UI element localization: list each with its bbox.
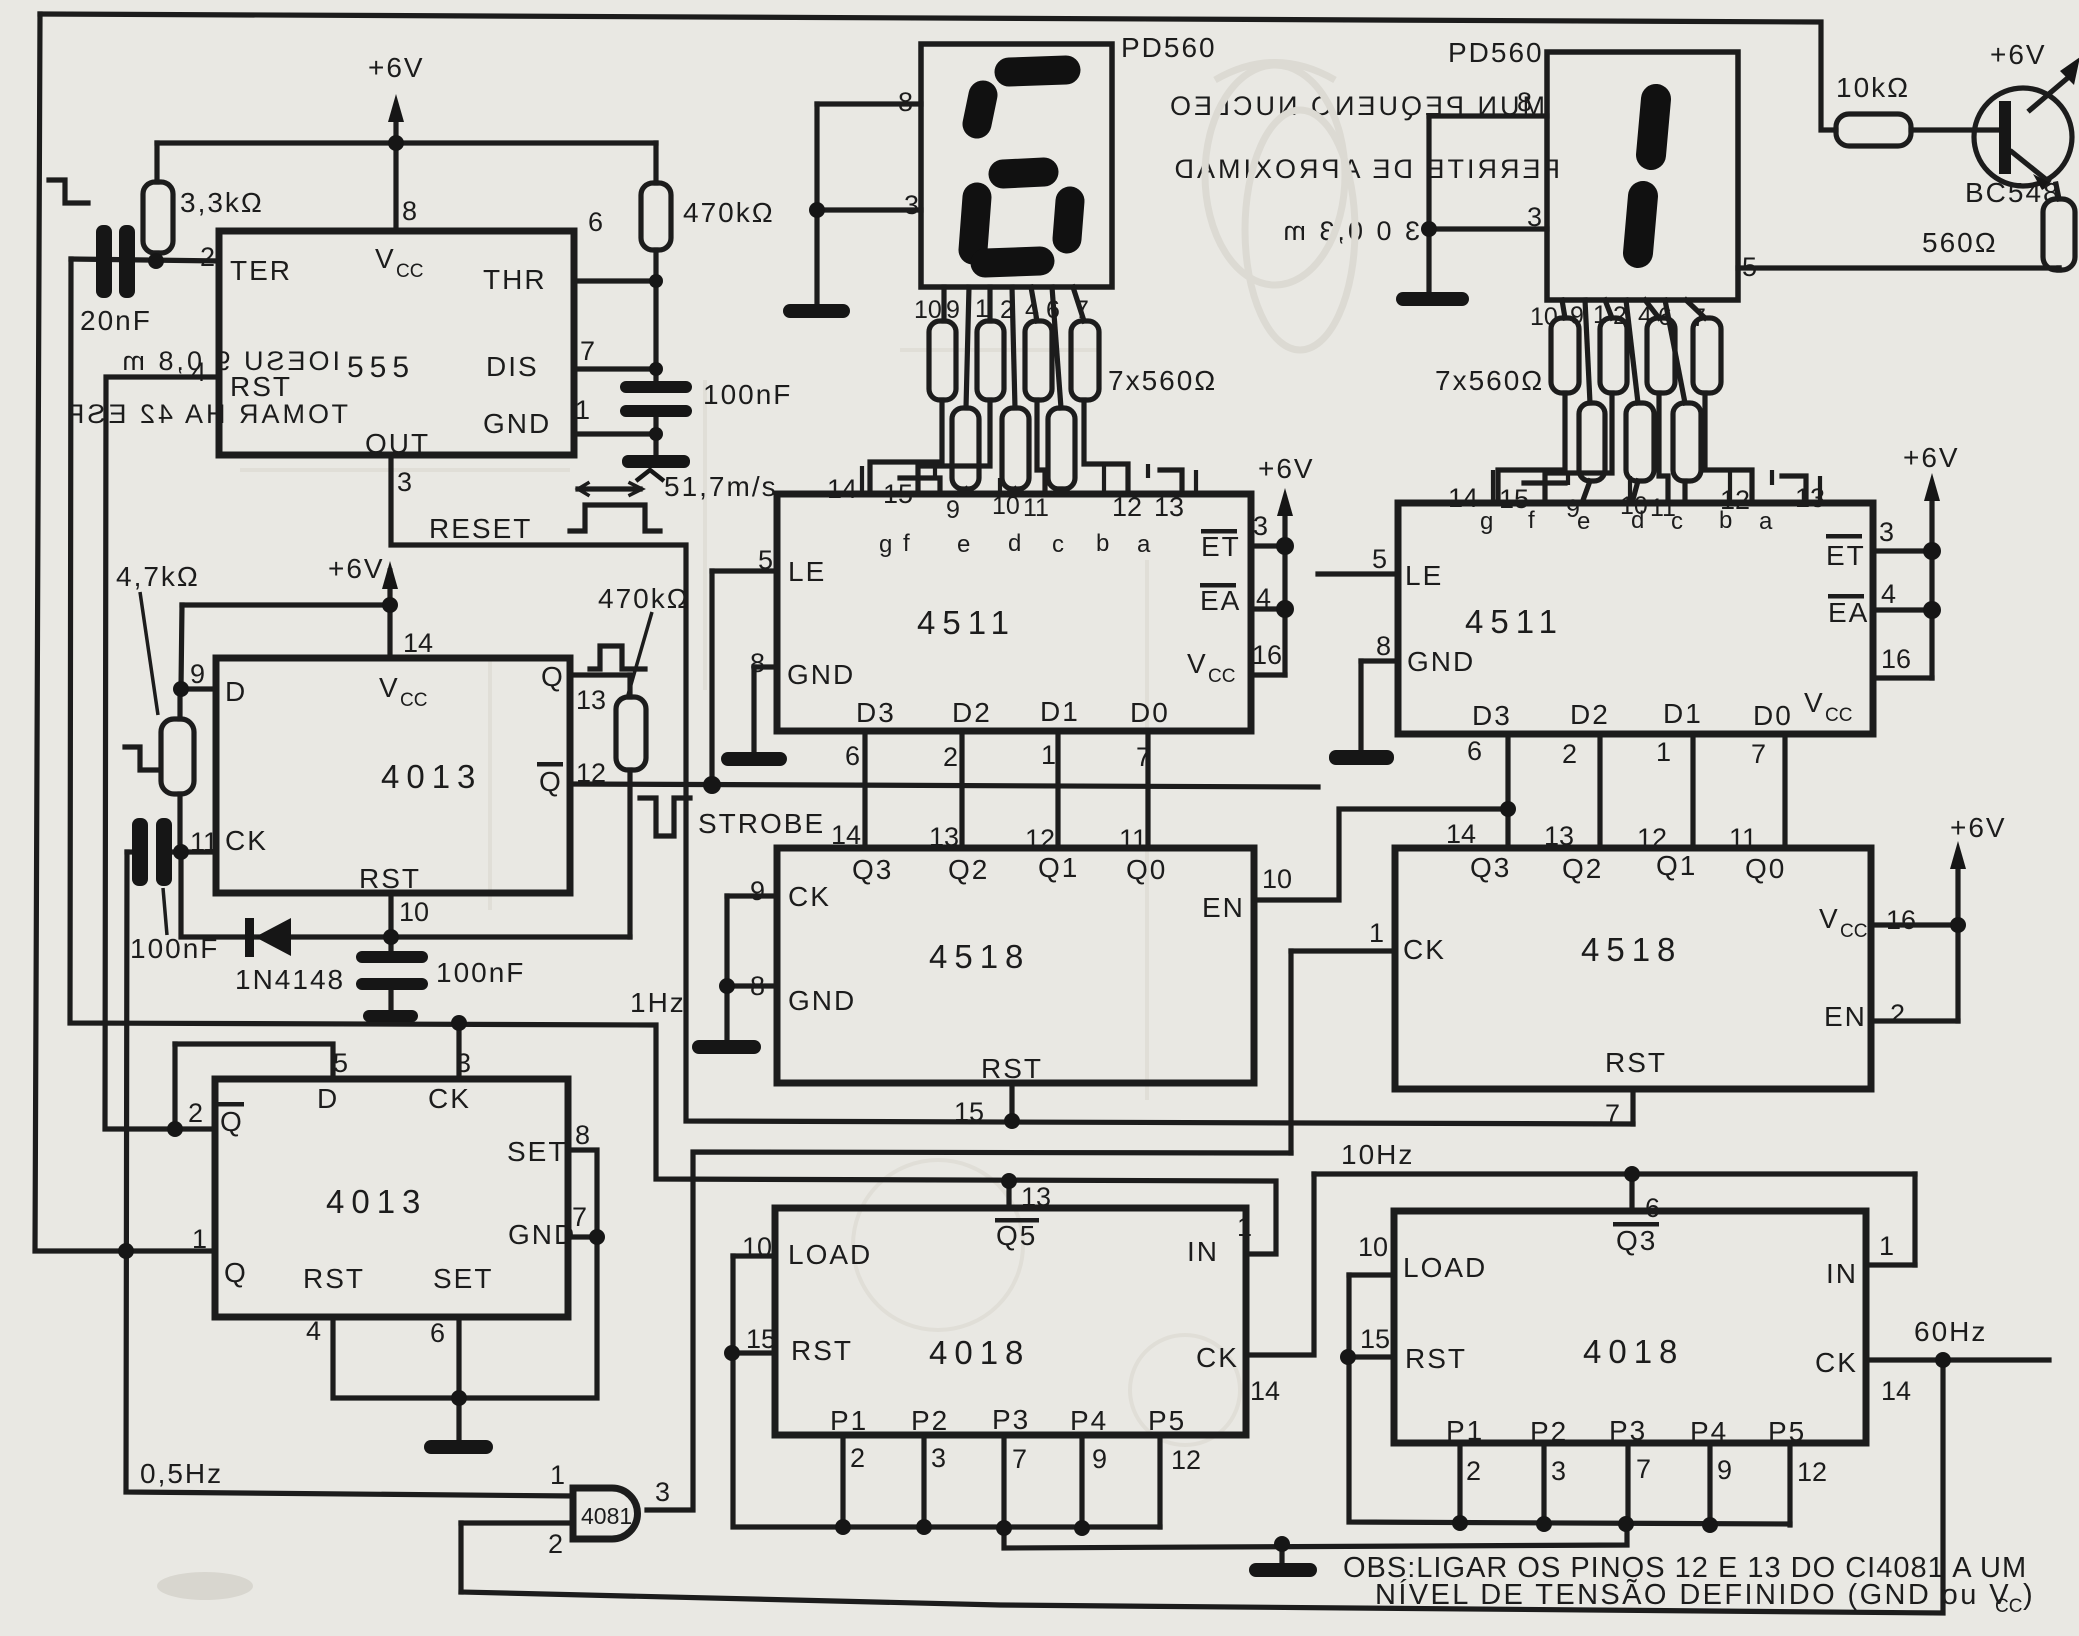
svg-text:8: 8 xyxy=(402,196,417,226)
svg-text:7: 7 xyxy=(1692,304,1706,332)
svg-text:6: 6 xyxy=(1658,303,1672,331)
svg-text:6: 6 xyxy=(1046,296,1060,324)
svg-text:7: 7 xyxy=(1636,1454,1651,1484)
svg-text:4081: 4081 xyxy=(581,1503,632,1529)
svg-text:560Ω: 560Ω xyxy=(1922,227,1998,258)
svg-text:TER: TER xyxy=(230,255,292,286)
svg-text:4: 4 xyxy=(1256,583,1271,613)
svg-text:OUT: OUT xyxy=(365,428,430,459)
svg-text:SET: SET xyxy=(507,1136,567,1167)
svg-text:V: V xyxy=(1819,903,1840,934)
svg-text:15: 15 xyxy=(1499,484,1529,514)
svg-text:13: 13 xyxy=(1154,492,1184,522)
svg-text:1N4148: 1N4148 xyxy=(235,964,345,995)
svg-text:1: 1 xyxy=(975,295,989,323)
svg-text:V: V xyxy=(379,672,400,703)
svg-text:+6V: +6V xyxy=(1990,39,2047,70)
svg-text:15: 15 xyxy=(883,479,913,509)
svg-text:d: d xyxy=(1631,507,1644,534)
svg-text:RST: RST xyxy=(1605,1047,1667,1078)
svg-text:0,5Hz: 0,5Hz xyxy=(140,1458,223,1489)
svg-text:D0: D0 xyxy=(1753,700,1793,731)
svg-text:Q: Q xyxy=(541,661,565,692)
svg-text:3: 3 xyxy=(655,1477,670,1507)
svg-text:10: 10 xyxy=(742,1232,772,1262)
svg-text:CK: CK xyxy=(788,881,831,912)
svg-text:14: 14 xyxy=(1448,483,1478,513)
svg-text:7: 7 xyxy=(1136,742,1151,772)
svg-text:11: 11 xyxy=(1023,494,1049,522)
svg-text:3: 3 xyxy=(931,1443,946,1473)
svg-text:Q0: Q0 xyxy=(1745,853,1786,884)
svg-text:RST: RST xyxy=(230,371,292,402)
svg-text:a: a xyxy=(1759,508,1773,535)
svg-text:100nF: 100nF xyxy=(703,379,792,410)
svg-text:14: 14 xyxy=(403,628,433,658)
svg-text:e: e xyxy=(1577,508,1590,535)
svg-text:13: 13 xyxy=(576,685,606,715)
svg-text:g: g xyxy=(879,531,892,558)
svg-text:3,3kΩ: 3,3kΩ xyxy=(180,187,264,218)
svg-text:1: 1 xyxy=(1656,737,1671,767)
svg-text:BC548: BC548 xyxy=(1965,177,2061,208)
svg-text:2: 2 xyxy=(850,1443,865,1473)
svg-text:2: 2 xyxy=(1466,1456,1481,1486)
svg-text:6: 6 xyxy=(1467,736,1482,766)
svg-text:3: 3 xyxy=(1527,202,1542,232)
svg-text:16: 16 xyxy=(1881,644,1911,674)
svg-text:555: 555 xyxy=(347,351,415,384)
svg-text:9: 9 xyxy=(750,876,765,906)
svg-text:D0: D0 xyxy=(1130,697,1170,728)
svg-text:SET: SET xyxy=(433,1263,493,1294)
svg-text:12: 12 xyxy=(1637,823,1667,853)
svg-text:10: 10 xyxy=(1530,303,1558,331)
svg-text:LOAD: LOAD xyxy=(788,1239,872,1270)
svg-text:9: 9 xyxy=(1717,1455,1732,1485)
svg-text:10: 10 xyxy=(1262,864,1292,894)
svg-text:CK: CK xyxy=(428,1083,471,1114)
svg-text:b: b xyxy=(1096,530,1109,557)
svg-text:2: 2 xyxy=(943,742,958,772)
svg-text:1: 1 xyxy=(1237,1212,1252,1242)
svg-text:16: 16 xyxy=(1252,640,1282,670)
svg-text:7x560Ω: 7x560Ω xyxy=(1435,365,1544,396)
svg-text:7: 7 xyxy=(1751,739,1766,769)
svg-text:d: d xyxy=(1008,530,1021,557)
svg-text:4,7kΩ: 4,7kΩ xyxy=(116,561,200,592)
svg-text:P5: P5 xyxy=(1768,1416,1806,1447)
svg-text:GND: GND xyxy=(788,985,856,1016)
svg-text:7: 7 xyxy=(580,336,595,366)
svg-text:9: 9 xyxy=(1092,1444,1107,1474)
svg-text:12: 12 xyxy=(576,758,606,788)
svg-text:CC: CC xyxy=(1840,921,1867,942)
svg-text:3: 3 xyxy=(904,190,919,220)
svg-text:4: 4 xyxy=(306,1316,321,1346)
svg-text:RST: RST xyxy=(303,1263,365,1294)
svg-text:RST: RST xyxy=(359,863,421,894)
svg-text:8: 8 xyxy=(1376,631,1391,661)
svg-text:CC: CC xyxy=(400,690,427,711)
svg-text:3: 3 xyxy=(1879,517,1894,547)
svg-text:15: 15 xyxy=(746,1324,776,1354)
svg-text:D3: D3 xyxy=(1472,700,1512,731)
svg-text:e: e xyxy=(957,531,970,558)
svg-text:14: 14 xyxy=(1250,1376,1280,1406)
svg-text:+6V: +6V xyxy=(1258,453,1315,484)
svg-text:11: 11 xyxy=(190,827,218,857)
svg-text:Q: Q xyxy=(539,766,563,797)
svg-text:10: 10 xyxy=(1358,1232,1388,1262)
svg-text:12: 12 xyxy=(1112,492,1142,522)
svg-text:f: f xyxy=(1528,507,1535,534)
svg-text:CK: CK xyxy=(1815,1347,1858,1378)
svg-text:13: 13 xyxy=(1021,1182,1051,1212)
svg-text:8: 8 xyxy=(1517,87,1532,117)
svg-text:D: D xyxy=(317,1083,339,1114)
svg-text:5: 5 xyxy=(1742,252,1757,282)
svg-text:1: 1 xyxy=(1041,740,1056,770)
svg-text:7x560Ω: 7x560Ω xyxy=(1108,365,1217,396)
svg-text:5: 5 xyxy=(1372,544,1387,574)
svg-text:D3: D3 xyxy=(856,697,896,728)
svg-text:14: 14 xyxy=(1446,819,1476,849)
svg-text:5: 5 xyxy=(333,1048,348,1078)
svg-text:4: 4 xyxy=(1881,579,1896,609)
svg-text:D2: D2 xyxy=(1570,699,1610,730)
svg-text:f: f xyxy=(903,530,910,557)
svg-text:14: 14 xyxy=(831,820,861,850)
svg-text:THR: THR xyxy=(483,264,547,295)
svg-text:+6V: +6V xyxy=(1903,442,1960,473)
svg-text:9: 9 xyxy=(1570,302,1584,330)
svg-text:4013: 4013 xyxy=(381,758,482,795)
svg-text:V: V xyxy=(375,243,396,274)
svg-text:RST: RST xyxy=(981,1053,1043,1084)
svg-text:P4: P4 xyxy=(1690,1416,1728,1447)
svg-text:1: 1 xyxy=(575,395,590,425)
svg-text:470kΩ: 470kΩ xyxy=(683,197,775,228)
svg-text:P4: P4 xyxy=(1070,1405,1108,1436)
svg-text:2: 2 xyxy=(200,242,215,272)
svg-text:1: 1 xyxy=(1593,301,1607,329)
svg-text:FERRITE DE APROXIMAD: FERRITE DE APROXIMAD xyxy=(1171,154,1560,184)
svg-text:+6V: +6V xyxy=(368,52,425,83)
svg-text:8: 8 xyxy=(750,648,765,678)
svg-text:1: 1 xyxy=(550,1460,565,1490)
svg-text:Q3: Q3 xyxy=(852,854,893,885)
svg-text:P1: P1 xyxy=(830,1405,868,1436)
svg-text:1: 1 xyxy=(192,1224,207,1254)
svg-text:LOAD: LOAD xyxy=(1403,1252,1487,1283)
svg-text:c: c xyxy=(1052,531,1064,558)
svg-text:10: 10 xyxy=(914,296,942,324)
svg-text:2: 2 xyxy=(548,1529,563,1559)
svg-text:2: 2 xyxy=(188,1098,203,1128)
svg-text:6: 6 xyxy=(430,1318,445,1348)
svg-text:4: 4 xyxy=(1025,296,1039,324)
svg-text:+6V: +6V xyxy=(1950,812,2007,843)
svg-text:NÍVEL DE TENSÃO DEFINIDO (GND: NÍVEL DE TENSÃO DEFINIDO (GND ou V xyxy=(1375,1577,2011,1611)
svg-text:LE: LE xyxy=(1405,560,1443,591)
svg-text:9: 9 xyxy=(190,659,205,689)
svg-text:D1: D1 xyxy=(1663,698,1703,729)
svg-text:14: 14 xyxy=(1881,1376,1911,1406)
svg-text:IN: IN xyxy=(1187,1236,1219,1267)
svg-text:GND: GND xyxy=(483,408,551,439)
svg-text:7: 7 xyxy=(1605,1099,1620,1129)
svg-text:8: 8 xyxy=(898,87,913,117)
svg-text:11: 11 xyxy=(1119,824,1147,854)
svg-text:a: a xyxy=(1137,531,1151,558)
svg-text:4518: 4518 xyxy=(1581,931,1682,968)
svg-text:3: 3 xyxy=(1253,511,1268,541)
svg-text:51,7m/s: 51,7m/s xyxy=(664,471,778,502)
svg-text:2: 2 xyxy=(1613,302,1627,330)
svg-text:IN: IN xyxy=(1826,1258,1858,1289)
svg-text:10Hz: 10Hz xyxy=(1341,1139,1414,1170)
svg-text:15: 15 xyxy=(954,1097,984,1127)
svg-text:6: 6 xyxy=(1645,1193,1660,1223)
svg-text:4518: 4518 xyxy=(929,938,1030,975)
svg-text:8: 8 xyxy=(750,971,765,1001)
svg-text:470kΩ: 470kΩ xyxy=(598,583,690,614)
svg-text:13: 13 xyxy=(929,822,959,852)
svg-text:STROBE: STROBE xyxy=(698,808,825,839)
svg-text:4: 4 xyxy=(1638,302,1652,330)
svg-text:3 0 0,3 m: 3 0 0,3 m xyxy=(1280,216,1420,246)
svg-text:P2: P2 xyxy=(1530,1416,1568,1447)
svg-text:+6V: +6V xyxy=(328,553,385,584)
svg-text:4013: 4013 xyxy=(326,1183,427,1220)
svg-text:60Hz: 60Hz xyxy=(1914,1316,1987,1347)
svg-text:3: 3 xyxy=(456,1048,471,1078)
svg-text:1: 1 xyxy=(1879,1231,1894,1261)
svg-text:Q1: Q1 xyxy=(1038,852,1079,883)
svg-text:P3: P3 xyxy=(1609,1415,1647,1446)
svg-text:16: 16 xyxy=(1886,905,1916,935)
svg-text:ET: ET xyxy=(1826,540,1866,571)
svg-text:P5: P5 xyxy=(1148,1405,1186,1436)
svg-text:3: 3 xyxy=(1551,1456,1566,1486)
svg-text:CC: CC xyxy=(396,261,423,282)
svg-text:Q: Q xyxy=(220,1106,244,1137)
svg-text:EN: EN xyxy=(1824,1001,1867,1032)
svg-text:Q1: Q1 xyxy=(1656,850,1697,881)
svg-text:PD560: PD560 xyxy=(1448,37,1544,68)
svg-text:GND: GND xyxy=(787,659,855,690)
svg-text:Q3: Q3 xyxy=(1470,852,1511,883)
svg-text:6: 6 xyxy=(845,741,860,771)
svg-text:10: 10 xyxy=(399,897,429,927)
svg-text:12: 12 xyxy=(1025,824,1055,854)
svg-text:13: 13 xyxy=(1544,821,1574,851)
svg-text:Q2: Q2 xyxy=(1562,853,1603,884)
svg-text:1: 1 xyxy=(1369,918,1384,948)
svg-text:Q2: Q2 xyxy=(948,854,989,885)
svg-text:P1: P1 xyxy=(1446,1415,1484,1446)
svg-text:11: 11 xyxy=(1729,823,1757,853)
svg-text:RST: RST xyxy=(791,1335,853,1366)
svg-text:Q3: Q3 xyxy=(1616,1225,1657,1256)
svg-text:c: c xyxy=(1671,508,1683,535)
svg-text:2: 2 xyxy=(1000,296,1014,324)
svg-text:CC: CC xyxy=(1825,705,1852,726)
svg-text:Q0: Q0 xyxy=(1126,854,1167,885)
svg-text:20nF: 20nF xyxy=(80,305,152,336)
svg-text:4: 4 xyxy=(191,357,206,387)
svg-text:ET: ET xyxy=(1201,531,1241,562)
svg-text:CK: CK xyxy=(1403,934,1446,965)
svg-text:4511: 4511 xyxy=(917,604,1016,641)
svg-text:100nF: 100nF xyxy=(436,957,525,988)
svg-text:12: 12 xyxy=(1171,1445,1201,1475)
svg-text:Q5: Q5 xyxy=(996,1220,1037,1251)
svg-text:D: D xyxy=(225,676,247,707)
svg-text:10kΩ: 10kΩ xyxy=(1836,72,1910,103)
svg-text:12: 12 xyxy=(1797,1457,1827,1487)
svg-text:5: 5 xyxy=(758,545,773,575)
svg-text:7: 7 xyxy=(1075,296,1089,324)
svg-text:8: 8 xyxy=(575,1120,590,1150)
svg-text:EN: EN xyxy=(1202,892,1245,923)
svg-text:D2: D2 xyxy=(952,697,992,728)
svg-text:4018: 4018 xyxy=(1583,1333,1684,1370)
svg-text:GND: GND xyxy=(1407,646,1475,677)
svg-text:b: b xyxy=(1719,507,1732,534)
svg-text:6: 6 xyxy=(588,207,603,237)
svg-text:V: V xyxy=(1804,687,1825,718)
svg-text:): ) xyxy=(2023,1579,2033,1611)
svg-text:Q: Q xyxy=(224,1257,248,1288)
svg-text:3: 3 xyxy=(397,467,412,497)
svg-text:EA: EA xyxy=(1828,597,1869,628)
svg-text:9: 9 xyxy=(946,496,960,524)
svg-text:RESET: RESET xyxy=(429,513,532,544)
svg-text:10: 10 xyxy=(992,492,1020,520)
svg-text:15: 15 xyxy=(1360,1324,1390,1354)
svg-text:7: 7 xyxy=(1012,1444,1027,1474)
svg-text:RST: RST xyxy=(1405,1343,1467,1374)
svg-text:CC: CC xyxy=(1208,666,1235,687)
svg-text:g: g xyxy=(1480,508,1493,535)
svg-text:9: 9 xyxy=(946,296,960,324)
svg-text:1Hz: 1Hz xyxy=(630,987,686,1018)
svg-text:LE: LE xyxy=(788,556,826,587)
svg-text:P3: P3 xyxy=(992,1404,1030,1435)
svg-text:4511: 4511 xyxy=(1465,603,1564,640)
svg-text:2: 2 xyxy=(1562,739,1577,769)
svg-text:CK: CK xyxy=(1196,1342,1239,1373)
svg-text:2: 2 xyxy=(1890,999,1905,1029)
svg-text:4018: 4018 xyxy=(929,1334,1030,1371)
svg-text:PD560: PD560 xyxy=(1121,32,1217,63)
svg-text:GND: GND xyxy=(508,1219,576,1250)
svg-text:EA: EA xyxy=(1200,585,1241,616)
svg-text:D1: D1 xyxy=(1040,696,1080,727)
svg-text:14: 14 xyxy=(827,474,857,504)
svg-text:CC: CC xyxy=(1995,1596,2022,1617)
svg-text:13: 13 xyxy=(1795,483,1825,513)
svg-text:DIS: DIS xyxy=(486,351,539,382)
svg-text:V: V xyxy=(1187,648,1208,679)
svg-text:100nF: 100nF xyxy=(130,933,219,964)
svg-text:CK: CK xyxy=(225,825,268,856)
svg-text:P2: P2 xyxy=(911,1405,949,1436)
